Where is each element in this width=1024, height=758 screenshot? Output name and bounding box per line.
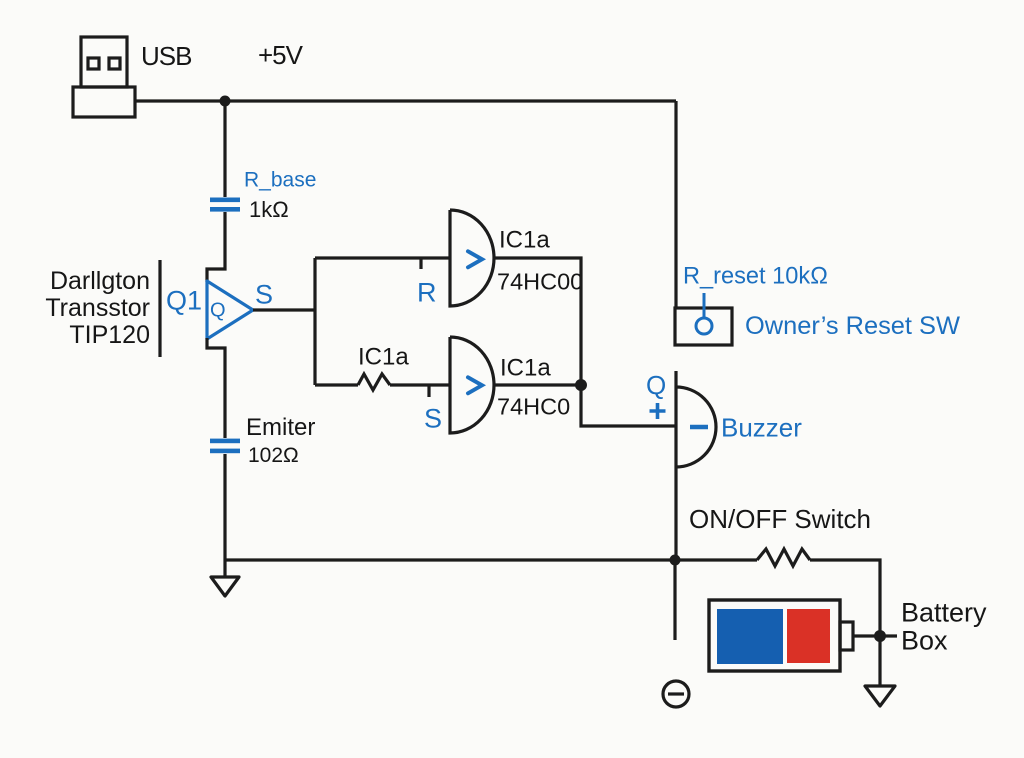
battery box BT1 bbox=[709, 600, 840, 671]
svg-text:R_base: R_base bbox=[244, 169, 316, 192]
wire base branch bbox=[207, 101, 225, 282]
bracket line bbox=[158, 260, 161, 357]
resistor Emitter body bbox=[210, 439, 240, 454]
svg-text:74HC00: 74HC00 bbox=[497, 269, 583, 295]
svg-text:Q1: Q1 bbox=[166, 286, 202, 316]
svg-text:R: R bbox=[417, 278, 437, 308]
resistor R_base body bbox=[210, 198, 240, 212]
svg-text:Q: Q bbox=[210, 300, 226, 322]
buzzer BZ1 bbox=[676, 371, 716, 560]
pin label + bbox=[650, 403, 666, 419]
svg-text:Battery: Battery bbox=[901, 598, 987, 628]
symbol minus terminal bbox=[663, 681, 689, 707]
svg-text:74HC0: 74HC0 bbox=[497, 394, 570, 420]
wire buzzer bottom stub bbox=[673, 560, 676, 640]
svg-text:S: S bbox=[255, 280, 273, 310]
pin tick S input bbox=[427, 385, 430, 397]
switch Owner's Reset SW box bbox=[675, 308, 732, 345]
gate IC1a top 74HC00 bbox=[450, 210, 494, 306]
svg-text:IC1a: IC1a bbox=[499, 227, 550, 254]
svg-text:IC1a: IC1a bbox=[500, 355, 551, 382]
battery terminal bbox=[840, 622, 853, 650]
node Q junction bbox=[575, 379, 587, 391]
switch button symbol bbox=[696, 293, 712, 334]
svg-text:102Ω: 102Ω bbox=[248, 444, 299, 467]
node junction at +5V bbox=[220, 96, 231, 107]
svg-text:Box: Box bbox=[901, 626, 948, 656]
resistor IC1a feedback bbox=[358, 374, 390, 390]
battery red cell bbox=[787, 609, 830, 663]
switch ON/OFF resistor body bbox=[757, 549, 810, 566]
svg-text:S: S bbox=[424, 404, 442, 434]
svg-text:Owner’s Reset SW: Owner’s Reset SW bbox=[745, 312, 960, 340]
ground GND2 bbox=[865, 686, 895, 706]
svg-text:1kΩ: 1kΩ bbox=[249, 197, 289, 222]
ground GND1 bbox=[211, 577, 239, 596]
wire S node bbox=[253, 258, 450, 385]
svg-text:IC1a: IC1a bbox=[358, 344, 409, 371]
transistor Q1 bbox=[207, 281, 253, 339]
wire bottom rail bbox=[225, 560, 880, 686]
wire +5V rail bbox=[135, 99, 676, 102]
USB connector J1 bbox=[73, 37, 135, 117]
svg-text:Q: Q bbox=[646, 370, 666, 400]
node buzzer-rail junction bbox=[670, 555, 681, 566]
svg-text:Darllgton: Darllgton bbox=[50, 267, 150, 295]
wire bottom gate output bbox=[494, 383, 581, 386]
pin tick R input bbox=[419, 258, 422, 269]
gate symbol > top bbox=[468, 251, 482, 267]
wire Q to buzzer bbox=[581, 385, 676, 426]
battery blue cell bbox=[717, 609, 783, 664]
wire right rail bbox=[674, 101, 677, 308]
svg-text:USB: USB bbox=[141, 41, 191, 71]
wire emitter branch bbox=[207, 338, 225, 577]
svg-text:Emiter: Emiter bbox=[246, 414, 315, 441]
gate symbol > bottom bbox=[468, 377, 482, 393]
svg-text:TIP120: TIP120 bbox=[69, 321, 150, 349]
svg-text:Transstor: Transstor bbox=[45, 294, 150, 322]
gate IC1a bottom 74HC0 bbox=[450, 337, 494, 433]
svg-text:+5V: +5V bbox=[258, 40, 304, 70]
node battery junction bbox=[874, 630, 886, 642]
svg-text:ON/OFF Switch: ON/OFF Switch bbox=[689, 504, 871, 534]
pin label − bbox=[690, 425, 708, 430]
svg-text:Buzzer: Buzzer bbox=[721, 413, 802, 443]
wire top gate output bbox=[494, 258, 581, 385]
wire battery to rail bbox=[853, 634, 897, 637]
svg-text:R_reset 10kΩ: R_reset 10kΩ bbox=[683, 264, 828, 290]
